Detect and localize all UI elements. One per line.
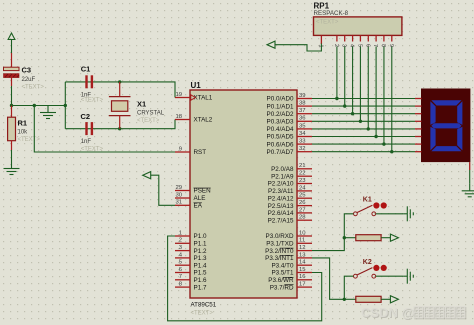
svg-text:P3.3/INT1: P3.3/INT1: [265, 255, 294, 262]
U1 pin 34 P0.5/AD5: [267, 131, 312, 141]
resistor R1: [8, 106, 16, 151]
svg-text:7: 7: [372, 44, 378, 47]
svg-text:9: 9: [388, 44, 394, 47]
svg-text:2: 2: [333, 44, 339, 47]
7-segment display DS1: [421, 89, 470, 163]
push button K2: [354, 265, 387, 278]
svg-text:23: 23: [299, 178, 306, 184]
wire K2 right terminal to ground: [376, 275, 404, 277]
svg-text:37: 37: [299, 108, 306, 114]
svg-text:P0.4/AD4: P0.4/AD4: [267, 126, 294, 133]
wire R1 to ground: [11, 150, 13, 162]
svg-text:16: 16: [299, 274, 306, 280]
svg-text:31: 31: [175, 200, 182, 206]
wire P3.3/INT1 to K2 node: [312, 258, 344, 299]
7-seg display pin 5: [415, 136, 422, 138]
svg-text:10: 10: [299, 230, 306, 236]
U1 pin 9 RST: [175, 146, 206, 156]
U1 XTAL1 clock chevron: [191, 95, 196, 100]
wire 7-seg common to ground: [469, 170, 471, 184]
wire P0.3 net: [312, 120, 415, 122]
7-seg display pin 7: [415, 151, 422, 153]
wire RST node horizontal run: [12, 105, 66, 107]
svg-text:17: 17: [299, 282, 306, 288]
wire K1 right terminal to ground: [376, 213, 404, 215]
resistor K1 pull-up (pull-up): [344, 235, 390, 241]
svg-text:K2: K2: [363, 259, 372, 266]
U1 pin 23 P2.2/A10: [268, 178, 312, 188]
U1 pin 37 P0.2/AD2: [267, 108, 312, 118]
svg-text:<TEXT>: <TEXT>: [191, 311, 214, 317]
svg-text:28: 28: [299, 215, 306, 221]
junction X1 bottom: [118, 127, 121, 130]
svg-text:RESPACK-8: RESPACK-8: [314, 10, 349, 17]
svg-text:P2.1/A9: P2.1/A9: [271, 173, 294, 180]
svg-text:P0.3/AD3: P0.3/AD3: [267, 119, 294, 126]
svg-text:U1: U1: [191, 81, 202, 90]
svg-text:5: 5: [356, 44, 362, 47]
svg-text:15: 15: [299, 267, 306, 273]
wire RP1 pin 7 to P0.5: [375, 47, 377, 137]
U1 pin 7 P1.6: [175, 274, 207, 284]
svg-text:P3.2/INT0: P3.2/INT0: [265, 248, 294, 255]
wire P0.6 net: [312, 143, 415, 145]
U1 pin 30 ALE: [175, 192, 205, 202]
U1 pin 22 P2.1/A9: [271, 171, 312, 181]
wire RST node to RST pin: [34, 106, 175, 153]
svg-text:P0.0/AD0: P0.0/AD0: [267, 96, 294, 103]
U1 pin 33 P0.6/AD6: [267, 139, 312, 149]
U1 pin 19 XTAL1: [175, 92, 213, 102]
wire P0.0 net: [312, 98, 415, 100]
power terminal (K2 pull-up): [390, 296, 398, 303]
svg-text:26: 26: [299, 200, 306, 206]
junction P0.6/RP1: [382, 142, 385, 145]
wire RP1 pin 9 to P0.7: [391, 47, 393, 152]
RP1 pin 5: [356, 35, 362, 47]
junction K1 node: [343, 236, 346, 239]
U1 pin 3 P1.2: [175, 245, 207, 255]
svg-text:<TEXT>: <TEXT>: [81, 146, 104, 152]
svg-text:33: 33: [299, 139, 306, 145]
RP1 pin 2: [333, 35, 339, 47]
wire RP1 pin 3 to P0.1: [344, 47, 346, 107]
U1 pin 24 P2.3/A11: [268, 185, 312, 195]
svg-text:P3.6/WR: P3.6/WR: [268, 277, 294, 284]
U1 pin 38 P0.1/AD1: [267, 101, 312, 111]
svg-text:3: 3: [341, 44, 347, 47]
svg-text:XTAL1: XTAL1: [194, 95, 213, 102]
capacitor C2: [85, 122, 93, 135]
watermark CSDN: [362, 306, 466, 321]
svg-text:32: 32: [299, 146, 306, 152]
wire P3.2/INT0 to K1 node: [312, 238, 344, 251]
resistor pack RP1 (RESPACK-8): [314, 17, 402, 36]
ground (below R1): [4, 162, 20, 175]
svg-text:P0.6/AD6: P0.6/AD6: [267, 141, 294, 148]
svg-text:<TEXT>: <TEXT>: [18, 137, 41, 143]
RP1 pin 6: [364, 35, 370, 47]
power terminal (K1 pull-up): [390, 234, 398, 241]
svg-text:RST: RST: [194, 149, 207, 156]
svg-text:C1: C1: [81, 65, 91, 74]
wire P0.7 net: [312, 151, 415, 153]
U1 pin 17 P3.7/tspan style="text-decoration:overli: [270, 282, 312, 292]
U1 pin 29 tspan style="text-decora: [175, 185, 211, 195]
svg-text:P2.3/A11: P2.3/A11: [268, 188, 294, 195]
U1 pin 11 P3.1/TXD: [266, 238, 312, 248]
svg-text:10k: 10k: [18, 130, 29, 136]
U1 pin 8 P1.7: [175, 282, 207, 292]
RP1 pin 1: [318, 35, 324, 47]
svg-text:22uF: 22uF: [22, 77, 36, 83]
svg-text:P3.0/RXD: P3.0/RXD: [266, 233, 294, 240]
svg-text:P0.5/AD5: P0.5/AD5: [267, 134, 294, 141]
svg-text:13: 13: [299, 252, 306, 258]
wire P0.1 net: [312, 105, 415, 107]
RP1 pin 4: [349, 35, 355, 47]
svg-text:38: 38: [299, 101, 306, 107]
svg-text:K1: K1: [363, 197, 372, 204]
wire RP1 pin1 to power arrow: [275, 44, 321, 52]
U1 pin 28 P2.7/A15: [268, 215, 312, 225]
U1 pin 15 P3.5/T1: [271, 267, 312, 277]
junction P0.3/RP1: [359, 120, 362, 123]
svg-text:8: 8: [380, 44, 386, 47]
RP1 pin 7: [372, 35, 378, 47]
wire RP1 pin 8 to P0.6: [383, 47, 385, 145]
wire P0.2 net: [312, 113, 415, 115]
U1 pin 12 P3.2/tspan style="text-decoration:overli: [265, 245, 312, 255]
wire C3 to RST node: [11, 86, 13, 106]
resistor K2 pull-up (pull-up): [344, 296, 390, 302]
svg-text:P2.4/A12: P2.4/A12: [268, 195, 294, 202]
svg-text:P2.6/A14: P2.6/A14: [268, 210, 294, 217]
svg-text:P1.2: P1.2: [194, 248, 207, 255]
7-seg display pin 0: [415, 98, 422, 100]
svg-text:P3.7/RD: P3.7/RD: [270, 284, 294, 291]
junction P0.2/RP1: [351, 112, 354, 115]
crystal X1: [109, 82, 131, 129]
7-seg display pin 6: [415, 143, 422, 145]
svg-text:P0.2/AD2: P0.2/AD2: [267, 111, 294, 118]
svg-text:30: 30: [175, 192, 182, 198]
U1 pin 6 P1.5: [175, 267, 207, 277]
U1 pin 2 P1.1: [175, 238, 207, 248]
wire P0.4 net: [312, 128, 415, 130]
svg-text:35: 35: [299, 123, 306, 129]
wire crystal top net (C1 row): [65, 82, 175, 98]
svg-text:C2: C2: [81, 112, 91, 121]
svg-text:9: 9: [179, 146, 182, 152]
power terminal (RP1 common): [267, 41, 275, 48]
wire VCC to C3: [11, 40, 13, 54]
U1 pin 5 P1.4: [175, 260, 207, 270]
wire RP1 pin 5 to P0.3: [359, 47, 361, 122]
U1 pin 31 tspan style="text-decora: [175, 200, 203, 210]
svg-text:18: 18: [175, 114, 182, 120]
svg-text:<TEXT>: <TEXT>: [316, 20, 339, 26]
wire RP1 pin 2 to P0.0: [336, 47, 338, 99]
junction P0.7/RP1: [390, 150, 393, 153]
wire P1.0 to P3.5/T1 (around chip bottom): [168, 236, 322, 321]
svg-text:7: 7: [179, 274, 182, 280]
U1 pin 10 P3.0/RXD: [266, 230, 313, 240]
op-amp U1 body (AT89C51 MCU): [190, 90, 297, 298]
junction P0.1/RP1: [343, 104, 346, 107]
junction RST node: [10, 104, 13, 107]
U1 pin 26 P2.5/A13: [268, 200, 312, 210]
ground (7-seg common): [462, 184, 474, 197]
svg-text:6: 6: [364, 44, 370, 47]
svg-text:1: 1: [179, 230, 182, 236]
junction P0.0/RP1: [335, 97, 338, 100]
svg-text:14: 14: [299, 260, 306, 266]
svg-text:P3.5/T1: P3.5/T1: [271, 270, 294, 277]
junction K2 node: [343, 298, 346, 301]
U1 pin 16 P3.6/tspan style="text-decoration:overli: [268, 274, 312, 284]
svg-text:CSDN @: CSDN @: [361, 305, 414, 320]
svg-text:25: 25: [299, 193, 306, 199]
U1 pin 1 P1.0: [175, 230, 207, 240]
wire RP1 pin 4 to P0.2: [352, 47, 354, 114]
7-seg common pin: [469, 162, 471, 170]
ground (K2): [403, 269, 413, 284]
7-seg display pin 4: [415, 128, 422, 130]
svg-text:<TEXT>: <TEXT>: [137, 118, 160, 124]
svg-text:22: 22: [299, 171, 306, 177]
U1 pin 32 P0.7/AD7: [267, 146, 312, 156]
svg-text:P1.4: P1.4: [194, 262, 207, 269]
junction P0.4/RP1: [367, 127, 370, 130]
wire K1 left terminal to rail: [344, 214, 353, 238]
svg-text:EA: EA: [194, 203, 203, 210]
7-seg display pin 2: [415, 113, 422, 115]
junction left rail / ground arm: [64, 104, 67, 107]
U1 pin 36 P0.3/AD3: [267, 116, 312, 126]
capacitor C3 (electrolytic): [4, 53, 20, 86]
wire EA to power arrow: [151, 175, 175, 205]
push button K1: [354, 202, 387, 215]
RP1 pin 8: [380, 35, 386, 47]
power terminal (VCC) top-left: [8, 33, 15, 40]
svg-text:P0.7/AD7: P0.7/AD7: [267, 149, 294, 156]
junction RST rail: [33, 104, 36, 107]
svg-text:<TEXT>: <TEXT>: [81, 98, 104, 104]
svg-text:R1: R1: [18, 119, 28, 128]
svg-text:X1: X1: [137, 100, 146, 109]
svg-text:24: 24: [299, 185, 306, 191]
svg-text:11: 11: [299, 238, 305, 244]
wire RP1 pin 6 to P0.4: [367, 47, 369, 129]
ground (K1): [403, 206, 413, 221]
wire P0.5 net: [312, 136, 415, 138]
svg-text:P1.0: P1.0: [194, 233, 207, 240]
power terminal (EA): [143, 172, 151, 179]
svg-text:PSEN: PSEN: [194, 188, 212, 195]
ground (reset/crystal rail): [40, 106, 56, 119]
U1 pin 35 P0.4/AD4: [267, 123, 312, 133]
7-seg display pin 3: [415, 120, 422, 122]
svg-text:P1.7: P1.7: [194, 284, 207, 291]
svg-text:1nF: 1nF: [81, 139, 92, 145]
U1 pin 4 P1.3: [175, 252, 207, 262]
svg-text:29: 29: [175, 185, 182, 191]
RP1 pin 9: [388, 35, 394, 47]
svg-text:P0.1/AD1: P0.1/AD1: [267, 103, 294, 110]
svg-text:1: 1: [318, 45, 324, 48]
U1 pin 21 P2.0/A8: [271, 163, 312, 173]
U1 pin 18 XTAL2: [175, 114, 213, 124]
svg-text:AT89C51: AT89C51: [191, 302, 217, 309]
svg-text:ALE: ALE: [194, 195, 206, 202]
svg-text:2: 2: [179, 238, 182, 244]
svg-text:<TEXT>: <TEXT>: [22, 85, 45, 91]
svg-text:P2.7/A15: P2.7/A15: [268, 217, 294, 224]
svg-text:P1.3: P1.3: [194, 255, 207, 262]
U1 pin 25 P2.4/A12: [268, 193, 312, 203]
capacitor C1: [85, 75, 93, 88]
svg-text:P3.1/TXD: P3.1/TXD: [266, 241, 294, 248]
svg-text:39: 39: [299, 93, 306, 99]
svg-text:21: 21: [299, 163, 306, 169]
U1 pin 27 P2.6/A14: [268, 207, 312, 217]
svg-text:CRYSTAL: CRYSTAL: [137, 111, 165, 117]
svg-text:P1.1: P1.1: [194, 241, 207, 248]
svg-text:P1.6: P1.6: [194, 277, 207, 284]
svg-text:12: 12: [299, 245, 306, 251]
svg-text:34: 34: [299, 131, 306, 137]
7-seg display pin 1: [415, 105, 422, 107]
RP1 pin 3: [341, 35, 347, 47]
svg-text:19: 19: [175, 92, 182, 98]
svg-text:36: 36: [299, 116, 306, 122]
wire K2 left terminal to rail: [344, 276, 353, 299]
svg-text:P2.5/A13: P2.5/A13: [268, 203, 294, 210]
svg-text:C3: C3: [22, 66, 32, 75]
U1 pin 13 P3.3/tspan style="text-decoration:overli: [265, 252, 312, 262]
junction X1 top: [118, 80, 121, 83]
U1 pin 39 P0.0/AD0: [267, 93, 312, 103]
svg-text:XTAL2: XTAL2: [194, 117, 213, 124]
wire crystal bottom net (C2 row): [65, 120, 175, 129]
svg-text:27: 27: [299, 207, 306, 213]
svg-text:P3.4/T0: P3.4/T0: [271, 262, 294, 269]
svg-text:4: 4: [349, 44, 355, 47]
svg-text:P2.0/A8: P2.0/A8: [271, 166, 294, 173]
junction P0.5/RP1: [374, 135, 377, 138]
wire crystal left rail: [64, 82, 66, 129]
svg-text:P1.5: P1.5: [194, 270, 207, 277]
U1 pin 14 P3.4/T0: [271, 260, 312, 270]
svg-text:P2.2/A10: P2.2/A10: [268, 181, 294, 188]
